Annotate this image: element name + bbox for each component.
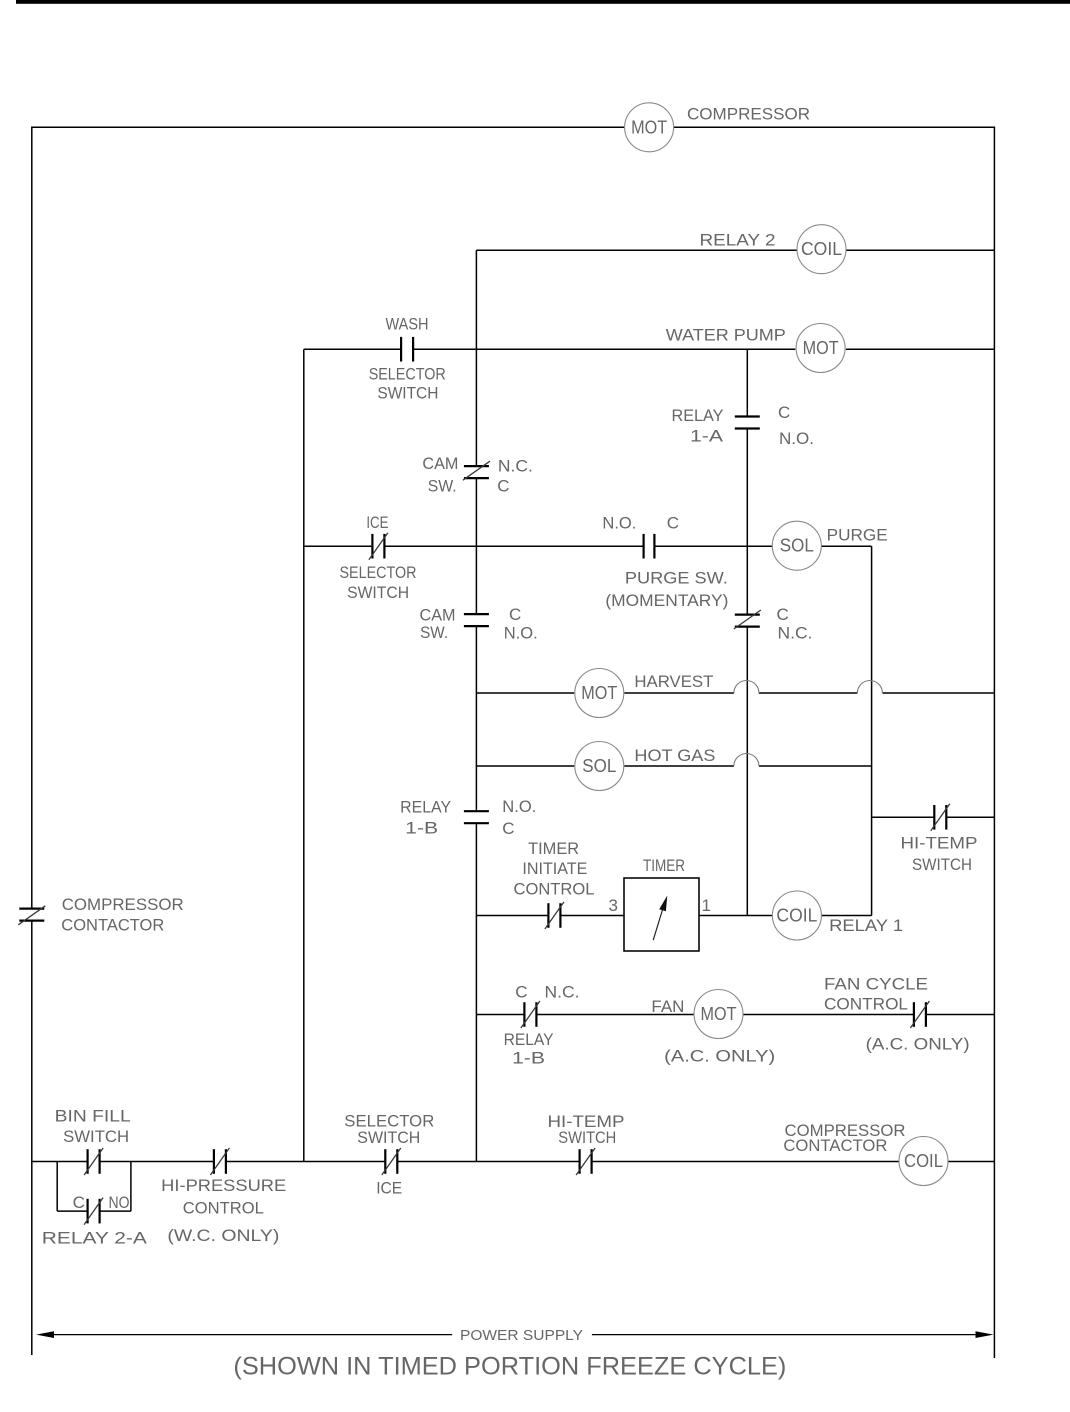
svg-text:MOT: MOT <box>581 683 617 703</box>
wire vertical x477 <box>475 250 477 466</box>
svg-text:SW.: SW. <box>428 477 457 496</box>
svg-text:N.O.: N.O. <box>502 797 536 816</box>
svg-text:HOT GAS: HOT GAS <box>634 746 715 765</box>
svg-text:1-B: 1-B <box>512 1049 545 1068</box>
svg-text:1-A: 1-A <box>690 426 724 445</box>
contact PURGE SW momentary <box>642 534 644 559</box>
wire hop harvest over x872 <box>857 681 882 694</box>
power supply line left <box>52 1334 452 1336</box>
contact HI-TEMP switch (bottom) <box>578 1149 580 1174</box>
svg-text:CAM: CAM <box>422 454 458 473</box>
svg-text:ICE: ICE <box>376 1179 402 1198</box>
svg-text:CONTROL: CONTROL <box>824 995 908 1014</box>
contact CAM SW N.C. <box>464 465 489 467</box>
svg-text:WASH: WASH <box>386 315 429 334</box>
wire hi-temp branch <box>872 816 935 818</box>
svg-text:SWITCH: SWITCH <box>63 1127 129 1146</box>
svg-text:N.C.: N.C. <box>498 456 533 475</box>
coil RELAY 1 <box>772 891 821 940</box>
svg-text:MOT: MOT <box>701 1004 737 1024</box>
wire rung fan <box>476 1014 524 1016</box>
svg-text:CONTACTOR: CONTACTOR <box>61 916 164 935</box>
wire rung ice/purge <box>304 545 372 547</box>
svg-text:COIL: COIL <box>801 239 842 259</box>
svg-text:N.O.: N.O. <box>602 513 636 532</box>
svg-text:TIMER: TIMER <box>643 856 685 875</box>
wire vertical x872 <box>871 546 873 915</box>
svg-text:C: C <box>509 605 521 624</box>
svg-text:RELAY: RELAY <box>504 1030 554 1049</box>
svg-text:C: C <box>515 982 527 1001</box>
contact CAM SW C/N.O. <box>464 613 489 615</box>
svg-text:MOT: MOT <box>631 117 667 137</box>
contact ICE selector switch <box>371 534 373 559</box>
wire rung wash/water-pump <box>304 348 401 350</box>
svg-text:C: C <box>777 605 789 624</box>
svg-text:C: C <box>502 819 514 838</box>
wire rung compressor <box>32 126 625 128</box>
svg-text:TIMER: TIMER <box>528 839 579 858</box>
timer box U1 <box>624 878 699 951</box>
wire vertical x747 <box>746 349 748 416</box>
contact RELAY 1-B fan (C N.C.) <box>523 1002 525 1027</box>
svg-text:SELECTOR: SELECTOR <box>340 563 417 582</box>
contact HI-TEMP switch <box>933 805 935 830</box>
svg-text:NO: NO <box>109 1193 130 1212</box>
svg-text:C: C <box>667 513 679 532</box>
svg-text:RELAY: RELAY <box>672 406 724 425</box>
wire hop harvest over x747 <box>734 681 759 694</box>
svg-text:N.C.: N.C. <box>545 982 580 1001</box>
svg-text:(SHOWN IN TIMED PORTION FREEZE: (SHOWN IN TIMED PORTION FREEZE CYCLE) <box>233 1353 786 1381</box>
svg-text:SWITCH: SWITCH <box>347 583 409 602</box>
motor MOT fan <box>694 990 743 1039</box>
svg-text:COMPRESSOR: COMPRESSOR <box>687 105 810 124</box>
coil RELAY 2 <box>797 225 846 274</box>
svg-text:N.O.: N.O. <box>779 429 814 448</box>
svg-text:1: 1 <box>702 896 711 915</box>
right power rail <box>993 127 995 1358</box>
svg-text:(W.C. ONLY): (W.C. ONLY) <box>167 1226 279 1245</box>
svg-text:(MOMENTARY): (MOMENTARY) <box>605 591 728 610</box>
wire relay 2-A branch <box>56 1162 58 1212</box>
contact RELAY 2-A <box>86 1199 88 1224</box>
solenoid SOL purge <box>772 521 821 570</box>
contact RELAY 1-B <box>464 810 489 812</box>
coil COMPRESSOR CONTACTOR <box>899 1137 948 1186</box>
svg-text:SOL: SOL <box>582 756 616 776</box>
contact HI-PRESSURE control <box>213 1149 215 1174</box>
svg-text:SW.: SW. <box>420 623 448 642</box>
svg-text:COIL: COIL <box>776 906 817 926</box>
motor MOT water pump <box>796 324 845 373</box>
svg-text:1-B: 1-B <box>405 818 438 837</box>
svg-text:COIL: COIL <box>904 1151 943 1171</box>
svg-text:C: C <box>497 477 509 496</box>
svg-text:N.O.: N.O. <box>504 623 538 642</box>
svg-text:SWITCH: SWITCH <box>558 1128 616 1147</box>
wire rung harvest <box>476 692 574 694</box>
svg-text:INITIATE: INITIATE <box>522 859 587 878</box>
svg-text:C: C <box>73 1193 85 1212</box>
svg-text:FAN: FAN <box>651 997 684 1016</box>
svg-text:SWITCH: SWITCH <box>377 384 438 403</box>
svg-text:PURGE SW.: PURGE SW. <box>625 569 728 588</box>
wire rung timer/coil <box>476 915 548 917</box>
svg-text:RELAY 1: RELAY 1 <box>829 916 903 935</box>
contact C-N.C. (relay) <box>735 613 760 615</box>
left power rail <box>31 127 33 909</box>
svg-text:N.C.: N.C. <box>778 623 813 642</box>
svg-text:CONTROL: CONTROL <box>514 879 595 898</box>
timer clock hand <box>653 907 663 941</box>
motor MOT harvest <box>575 669 624 718</box>
svg-text:C: C <box>778 403 790 422</box>
wire vertical x305 <box>303 349 305 1161</box>
contact RELAY 1-A <box>735 415 760 417</box>
svg-text:BIN FILL: BIN FILL <box>55 1107 131 1126</box>
contact ICE selector (bottom) <box>384 1149 386 1174</box>
top border bar <box>16 0 1070 4</box>
svg-text:CONTROL: CONTROL <box>183 1198 264 1217</box>
motor MOT compressor <box>625 103 674 152</box>
svg-text:HI-PRESSURE: HI-PRESSURE <box>161 1176 286 1195</box>
svg-text:SELECTOR: SELECTOR <box>369 365 446 384</box>
wire rung hot gas <box>476 765 574 767</box>
wire rung bottom <box>32 1161 88 1163</box>
svg-text:WATER PUMP: WATER PUMP <box>666 325 786 344</box>
svg-text:3: 3 <box>609 896 618 915</box>
contact FAN CYCLE CONTROL <box>913 1002 915 1027</box>
svg-text:RELAY 2-A: RELAY 2-A <box>42 1229 148 1248</box>
power supply line right <box>592 1334 976 1336</box>
svg-text:MOT: MOT <box>803 338 839 358</box>
contact BIN FILL switch <box>86 1149 88 1174</box>
svg-text:SWITCH: SWITCH <box>357 1128 420 1147</box>
svg-text:SWITCH: SWITCH <box>912 855 972 874</box>
svg-text:HARVEST: HARVEST <box>634 672 713 691</box>
svg-text:RELAY 2: RELAY 2 <box>700 231 776 250</box>
svg-text:FAN CYCLE: FAN CYCLE <box>824 974 928 993</box>
svg-text:PURGE: PURGE <box>827 525 888 544</box>
wire hop hot-gas over x747 <box>734 754 759 767</box>
solenoid SOL hot gas <box>575 742 624 791</box>
svg-text:RELAY: RELAY <box>400 798 451 817</box>
svg-text:SOL: SOL <box>780 536 814 556</box>
wire rung relay2 <box>476 249 797 251</box>
svg-text:HI-TEMP: HI-TEMP <box>901 834 978 853</box>
svg-text:CAM: CAM <box>420 606 456 625</box>
contact WASH selector switch <box>400 337 402 362</box>
svg-text:ICE: ICE <box>366 513 388 532</box>
svg-text:(A.C. ONLY): (A.C. ONLY) <box>664 1047 775 1066</box>
svg-text:CONTACTOR: CONTACTOR <box>783 1136 887 1155</box>
contact COMPRESSOR CONTACTOR <box>19 907 44 909</box>
svg-text:(A.C. ONLY): (A.C. ONLY) <box>866 1035 970 1054</box>
contact TIMER INITIATE CONTROL <box>547 903 549 928</box>
svg-text:COMPRESSOR: COMPRESSOR <box>62 895 184 914</box>
svg-text:POWER SUPPLY: POWER SUPPLY <box>460 1327 583 1344</box>
